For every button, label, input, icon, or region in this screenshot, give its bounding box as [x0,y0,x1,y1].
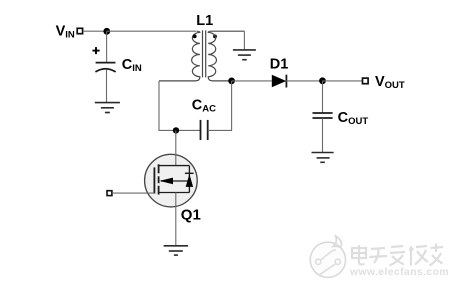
ground output [312,153,334,163]
wire Q1 source to ground [175,193,177,246]
svg-text:VIN: VIN [56,24,75,41]
terminal Q1 gate [107,191,112,196]
node B secondary junction [228,78,235,85]
transformer core [203,30,206,77]
ground CIN [95,103,120,113]
wire D1 cathode to node D [286,80,322,82]
ground Q1 source [164,246,189,255]
watermark logo [310,236,345,277]
wire L1 secondary top to ground [243,31,245,50]
terminal VIN [77,28,82,33]
svg-text:L1: L1 [196,13,213,29]
wire node D to VOUT terminal [323,80,363,82]
diode D1 [272,75,287,88]
terminal VOUT [363,78,369,84]
wire CAC to node B [208,81,232,130]
wire CIN to ground [106,70,108,103]
svg-text:D1: D1 [270,56,289,72]
node A input junction [103,28,110,35]
wire node C to Q1 drain [175,130,177,166]
watermark chinese text [352,244,443,266]
node C Q1 drain tap [173,127,179,133]
ground transformer secondary [233,50,256,60]
inductor L1 secondary winding [208,31,244,81]
transistor Q1 symbol [154,164,193,194]
wire node B to D1 anode [232,80,272,82]
node D output junction [319,77,326,84]
wire node A to L1 primary top [107,30,196,32]
svg-text:CIN: CIN [122,57,142,74]
wire VIN terminal to node A [83,30,107,32]
capacitor COUT [313,113,333,118]
wire CAC loop left side [159,81,200,130]
wire node A down to CIN [106,31,108,62]
svg-text:VOUT: VOUT [375,74,405,91]
wire node D to COUT [322,81,324,113]
inductor L1 primary winding [159,31,200,81]
wire COUT to ground [322,118,324,152]
wire gate terminal to Q1 [112,192,154,194]
polarity dot secondary [213,35,217,39]
polarity dot primary [193,35,197,39]
capacitor CIN [95,63,115,72]
svg-text:CAC: CAC [192,98,216,115]
capacitor CAC [201,120,208,140]
svg-text:Q1: Q1 [181,206,201,223]
svg-text:www.elecfans.com: www.elecfans.com [349,267,449,278]
plus sign for CIN [93,47,100,54]
svg-text:COUT: COUT [338,110,369,127]
transistor Q1 body [145,154,198,207]
